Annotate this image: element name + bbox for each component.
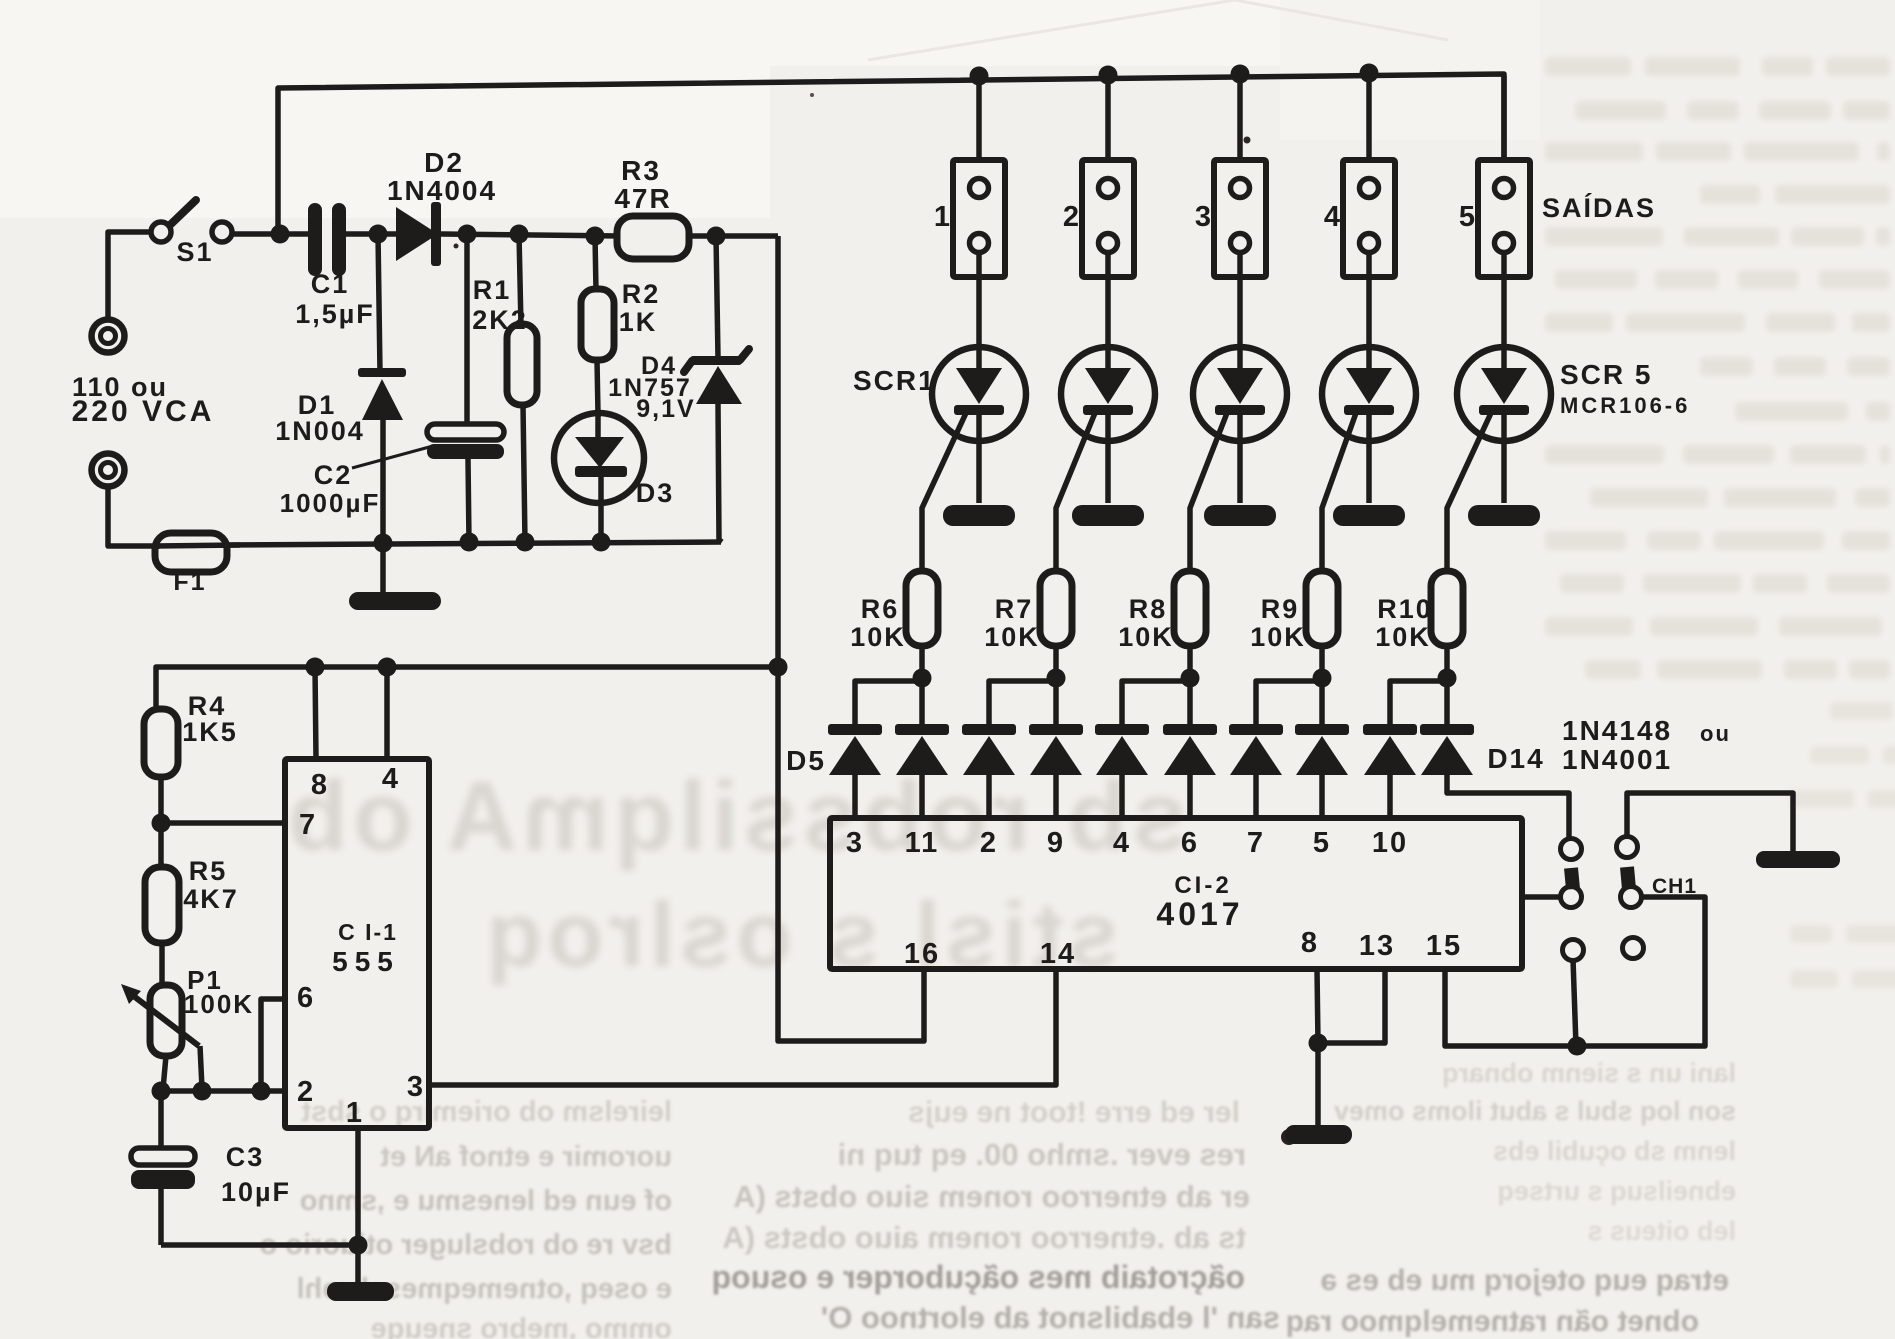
junction node bus-col3 <box>1231 65 1250 84</box>
junction node rail-D3 <box>592 533 611 552</box>
svg-text:1: 1 <box>934 201 952 233</box>
resistor R1 2K2 <box>472 234 537 542</box>
svg-text:4: 4 <box>382 763 400 795</box>
wire bus to output connector 1 <box>976 76 982 161</box>
diode D5 <box>828 681 922 818</box>
svg-text:SCR 5: SCR 5 <box>1560 359 1652 390</box>
svg-text:2: 2 <box>1063 201 1081 233</box>
svg-text:2K2: 2K2 <box>472 305 528 335</box>
resistor R5 4K7 <box>145 823 239 986</box>
svg-text:9,1V: 9,1V <box>636 395 695 423</box>
svg-text:1N004: 1N004 <box>275 416 365 446</box>
svg-text:3: 3 <box>846 827 864 859</box>
wire switch to C1 <box>232 231 309 237</box>
svg-text:leb oiteus s: leb oiteus s <box>1587 1216 1736 1246</box>
AC input jack lower <box>92 454 125 487</box>
svg-text:10K: 10K <box>850 622 906 652</box>
ground symbol CI-2 <box>1285 1043 1352 1144</box>
svg-text:ts ab .etnerroo ronem aiuo obs: ts ab .etnerroo ronem aiuo obsts (A <box>722 1220 1246 1255</box>
junction node gate net 10 <box>1438 669 1457 688</box>
wire +V rail down to CI-2 pin 16 <box>778 236 924 1041</box>
diode D14 <box>1420 678 1474 775</box>
ground symbol SCR2 cathode <box>1072 505 1144 526</box>
ground symbol CH1 <box>1756 851 1840 868</box>
output connector 4 <box>1324 160 1395 277</box>
svg-text:san 'l ebabilsnot ab elortnoo: san 'l ebabilsnot ab elortnoo O' <box>821 1300 1280 1335</box>
junction node C2 tap <box>458 225 477 244</box>
svg-text:R10: R10 <box>1377 594 1433 624</box>
label SCR1 <box>853 365 936 396</box>
wire bus to output connector 5 <box>1501 76 1507 161</box>
wire SCR4 gate to R9 <box>1322 413 1356 572</box>
svg-text:D2: D2 <box>424 147 464 178</box>
output connector 5 <box>1459 160 1530 277</box>
wire SCR1 gate to R6 <box>922 413 966 572</box>
svg-text:R9: R9 <box>1261 594 1300 624</box>
wire pin 1 <box>355 1130 361 1245</box>
LED D3 <box>554 413 674 542</box>
svg-text:1K5: 1K5 <box>182 717 238 747</box>
potentiometer P1 100K <box>121 965 254 1089</box>
label SCR 5 / MCR106-6 <box>1560 359 1690 418</box>
wire pin 7 <box>161 820 285 826</box>
SCR1 <box>932 347 1026 503</box>
junction node C3 top <box>152 1082 171 1101</box>
svg-text:220 VCA: 220 VCA <box>72 395 215 428</box>
wire D2 to R3 <box>441 234 620 236</box>
junction node reset net <box>1568 1037 1587 1056</box>
svg-text:D14: D14 <box>1487 743 1544 774</box>
svg-text:lani un s sienm obnarq: lani un s sienm obnarq <box>1442 1058 1736 1088</box>
output connector 3 <box>1195 160 1266 277</box>
resistor R7 10K <box>984 571 1072 678</box>
svg-text:C2: C2 <box>314 460 353 490</box>
wire bus to output connector 3 <box>1237 76 1243 161</box>
svg-text:9: 9 <box>1047 827 1065 859</box>
junction node bus-col4 <box>1360 64 1379 83</box>
junction node rail-C2 <box>460 533 479 552</box>
wire CH1 right pole to ground <box>1627 793 1793 852</box>
svg-text:etraq euq otejorq mu eb es ə: etraq euq otejorq mu eb es ə <box>1321 1264 1729 1297</box>
resistor R6 10K <box>850 571 938 678</box>
diode D2 1N4004 <box>387 147 497 266</box>
svg-text:R3: R3 <box>621 155 661 186</box>
svg-text:R1: R1 <box>473 275 512 305</box>
svg-text:SAÍDAS: SAÍDAS <box>1542 192 1656 223</box>
wire CH1 lower-left contact <box>1573 959 1576 1046</box>
junction node rail-R1 <box>516 533 535 552</box>
label 110 ou 220 VCA <box>72 372 215 428</box>
wire connector 1 to SCR1 anode <box>976 252 982 348</box>
svg-text:ler ed erre !toot ne eujs: ler ed erre !toot ne eujs <box>908 1096 1240 1129</box>
junction node gate net 6 <box>913 669 932 688</box>
SCR4 <box>1322 347 1416 503</box>
svg-text:8: 8 <box>311 769 329 801</box>
svg-text:4K7: 4K7 <box>183 884 239 914</box>
AC input jack upper <box>92 320 125 353</box>
junction node pin8/13 <box>1309 1034 1328 1053</box>
capacitor C1 <box>295 203 375 329</box>
junction node bus-col1 <box>970 67 989 86</box>
wire connector 3 to SCR3 anode <box>1237 252 1243 348</box>
svg-text:13: 13 <box>1359 930 1395 962</box>
resistor R10 10K <box>1375 571 1463 678</box>
svg-text:1N4001: 1N4001 <box>1562 744 1672 775</box>
junction node R4/R5/pin7 <box>152 814 171 833</box>
svg-text:oãçrotaib mes oãçuborqer e osu: oãçrotaib mes oãçuborqer e osuoq <box>712 1259 1245 1295</box>
diode D1 1N004 <box>275 234 406 543</box>
wire pin 2 line <box>161 1088 285 1094</box>
fuse F1 <box>155 533 240 596</box>
svg-text:CH1: CH1 <box>1652 875 1697 898</box>
svg-text:7: 7 <box>1247 827 1265 859</box>
wire 555 pin3 to CI-2 pin14 <box>429 969 1056 1085</box>
zener D4 1N757 9,1V <box>608 236 749 542</box>
resistor R9 10K <box>1250 571 1338 678</box>
ground symbol SCR1 cathode <box>943 505 1015 526</box>
svg-text:obnet oãn ratnemelqmoo raq: obnet oãn ratnemelqmoo raq <box>1286 1305 1699 1338</box>
diode D9 <box>1095 681 1190 818</box>
junction node pin1/C3 <box>349 1236 368 1255</box>
svg-text:2: 2 <box>297 1076 315 1108</box>
wire pin8 to supply <box>315 667 316 759</box>
resistor R3 47R <box>614 155 689 259</box>
svg-text:10K: 10K <box>1375 622 1431 652</box>
wire R3 to supply column <box>688 233 778 239</box>
wire SCR3 gate to R8 <box>1190 413 1227 572</box>
svg-text:D5: D5 <box>786 745 826 776</box>
output connector 1 <box>934 160 1005 277</box>
wire pin4 to supply <box>384 667 390 759</box>
junction node R2 tap <box>586 227 605 246</box>
capacitor C3 10uF <box>131 1091 291 1245</box>
wire SCR2 gate to R7 <box>1056 413 1095 572</box>
diode D12 <box>1295 678 1349 818</box>
svg-text:10K: 10K <box>1118 622 1174 652</box>
svg-text:R2: R2 <box>622 279 661 309</box>
svg-text:4017: 4017 <box>1156 896 1243 932</box>
svg-text:C1: C1 <box>311 269 350 299</box>
junction node gate net 9 <box>1313 669 1332 688</box>
wire 4017 to CH1 left pole <box>1522 894 1562 900</box>
wire bus to output connector 2 <box>1105 76 1111 161</box>
junction node rail-D1 <box>374 534 393 553</box>
svg-text:8: 8 <box>1301 927 1319 959</box>
junction node P1 wiper <box>193 1082 212 1101</box>
junction node gate net 8 <box>1181 669 1200 688</box>
junction node pin6 link <box>252 1082 271 1101</box>
svg-text:C3: C3 <box>226 1142 265 1172</box>
svg-text:ebneilsuq s urtseq: ebneilsuq s urtseq <box>1497 1176 1736 1206</box>
capacitor C2 1000uF <box>280 234 504 542</box>
diode D10 <box>1163 678 1217 818</box>
svg-text:R5: R5 <box>189 856 228 886</box>
svg-text:1N4004: 1N4004 <box>387 175 497 206</box>
svg-text:3: 3 <box>1195 201 1213 233</box>
IC U1 CI-1 555 <box>285 759 429 1129</box>
diode D6 <box>895 678 949 818</box>
wire connector 5 to SCR5 anode <box>1501 252 1507 348</box>
svg-text:6: 6 <box>1181 827 1199 859</box>
wire connector 2 to SCR2 anode <box>1105 252 1111 348</box>
label D14 1N4148 ou 1N4001 <box>1487 715 1731 775</box>
svg-text:1: 1 <box>346 1097 364 1129</box>
svg-text:R7: R7 <box>995 594 1034 624</box>
svg-text:F1: F1 <box>173 568 206 596</box>
svg-text:2: 2 <box>980 827 998 859</box>
svg-text:5: 5 <box>1313 827 1331 859</box>
IC U2 CI-2 4017 <box>830 818 1522 970</box>
diode D7 <box>962 681 1056 818</box>
svg-text:son loq sbul s abut iloms omev: son loq sbul s abut iloms omev <box>1334 1096 1736 1126</box>
junction node pin4 <box>378 658 397 677</box>
junction node R1 tap <box>510 225 529 244</box>
svg-text:SCR1: SCR1 <box>853 365 936 396</box>
ink speck <box>454 93 1251 249</box>
svg-text:555: 555 <box>332 946 400 977</box>
svg-text:R6: R6 <box>861 594 900 624</box>
svg-text:MCR106-6: MCR106-6 <box>1560 393 1690 418</box>
svg-text:er ab etnerroo ronem siuo obst: er ab etnerroo ronem siuo obsts (A <box>733 1179 1250 1214</box>
svg-text:100K: 100K <box>184 989 254 1019</box>
svg-text:4: 4 <box>1113 827 1131 859</box>
junction node +V / 555 supply <box>769 658 788 677</box>
wire C1 to D2 <box>345 231 398 237</box>
junction node bus-col2 <box>1099 66 1118 85</box>
SCR3 <box>1193 347 1287 503</box>
resistor R2 1K <box>581 236 660 414</box>
svg-text:7: 7 <box>299 809 317 841</box>
svg-text:14: 14 <box>1040 938 1076 970</box>
svg-text:CI-2: CI-2 <box>1174 872 1231 899</box>
junction node D1 tap <box>369 225 388 244</box>
output connector 2 <box>1063 160 1134 277</box>
SCR2 <box>1061 347 1155 503</box>
svg-text:ommo ,mebro sneuqe: ommo ,mebro sneuqe <box>371 1313 672 1339</box>
wire pin 8 and 13 to ground <box>1317 969 1385 1043</box>
switch CH1 <box>1561 837 1698 961</box>
svg-text:5: 5 <box>1459 201 1477 233</box>
diode D13 <box>1363 681 1447 818</box>
wire C3 to pin1 ground <box>161 1242 358 1248</box>
svg-text:uoromir e etnof aN et: uoromir e etnof aN et <box>380 1141 672 1173</box>
svg-text:15: 15 <box>1426 930 1462 962</box>
wire AC neutral jack to fuse <box>108 487 160 546</box>
switch S1 <box>151 200 232 267</box>
junction node gate net 7 <box>1047 669 1066 688</box>
svg-text:6: 6 <box>297 982 315 1014</box>
svg-text:10: 10 <box>1372 827 1408 859</box>
SCR5 <box>1457 347 1551 503</box>
svg-text:R8: R8 <box>1129 594 1168 624</box>
label SAIDAS <box>1542 192 1656 223</box>
wire SCR5 gate to R10 <box>1447 413 1491 572</box>
svg-text:res ever .smho 00. eq tuq ni: res ever .smho 00. eq tuq ni <box>838 1137 1246 1172</box>
wire top bus from supply to outputs <box>278 74 1504 234</box>
svg-text:lenm sb oçubil ebs: lenm sb oçubil ebs <box>1493 1136 1736 1166</box>
resistor R8 10K <box>1118 571 1206 678</box>
wire connector 4 to SCR4 anode <box>1366 252 1372 348</box>
junction node D4 tap <box>707 227 726 246</box>
svg-text:1,5µF: 1,5µF <box>295 299 375 329</box>
svg-text:1000µF: 1000µF <box>280 488 381 518</box>
wire AC live from jack to switch <box>108 232 151 321</box>
diode D11 <box>1229 681 1322 818</box>
svg-text:10µF: 10µF <box>221 1177 291 1207</box>
ground symbol at D1/C2 node <box>349 543 441 610</box>
ground symbol SCR3 cathode <box>1204 505 1276 526</box>
wire pin 6 link <box>261 999 285 1091</box>
svg-text:D3: D3 <box>636 478 675 508</box>
wire 555 supply line <box>156 667 778 709</box>
wire pin 15 to CH1 <box>1445 897 1705 1046</box>
svg-text:10K: 10K <box>984 622 1040 652</box>
svg-text:4: 4 <box>1324 201 1342 233</box>
ground symbol SCR5 cathode <box>1468 505 1540 526</box>
svg-text:11: 11 <box>905 827 940 859</box>
svg-text:10K: 10K <box>1250 622 1306 652</box>
svg-text:1K: 1K <box>619 307 658 337</box>
svg-text:47R: 47R <box>614 183 671 214</box>
junction node pin8 <box>306 658 325 677</box>
wire D14 to CH1 <box>1447 775 1569 840</box>
svg-text:3: 3 <box>407 1071 425 1103</box>
svg-text:C I-1: C I-1 <box>338 919 398 945</box>
label D5 <box>786 745 826 776</box>
junction node bus drop <box>271 225 290 244</box>
wire supply bottom rail <box>227 542 721 545</box>
wire bus to output connector 4 <box>1366 76 1372 161</box>
ground symbol 555 <box>327 1245 394 1301</box>
svg-text:S1: S1 <box>176 237 213 267</box>
resistor R4 1K5 <box>144 691 238 823</box>
svg-text:1N4148: 1N4148 <box>1562 715 1672 746</box>
diode D8 <box>1029 678 1083 818</box>
ground symbol SCR4 cathode <box>1333 505 1405 526</box>
svg-text:16: 16 <box>904 938 940 970</box>
svg-text:ou: ou <box>1700 721 1731 746</box>
